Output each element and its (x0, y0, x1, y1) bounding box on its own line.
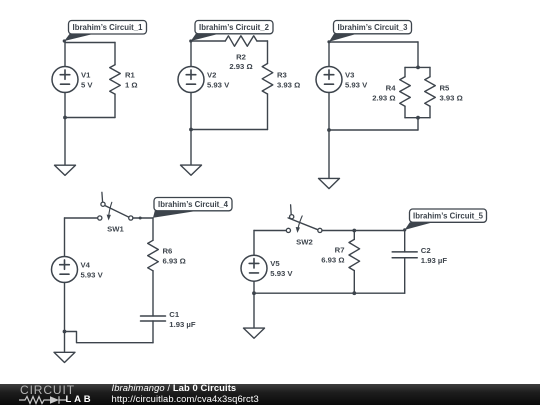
junction node V5 bottom (252, 291, 256, 295)
svg-text:5.93 V: 5.93 V (345, 81, 368, 90)
svg-text:V5: V5 (270, 259, 280, 268)
node anchor dot circuit 4 (139, 217, 142, 220)
label V1 5 V (81, 71, 93, 90)
wire C1 bottom lead (152, 321, 154, 343)
svg-text:Ibrahim’s Circuit_4: Ibrahim’s Circuit_4 (158, 200, 229, 209)
wire R5 top lead (429, 67, 431, 76)
wire bottom rail circuit 1 (65, 117, 115, 119)
wire bottom rail circuit 3 (329, 129, 418, 131)
label C1 1.93 uF (169, 310, 196, 329)
label R1 1 ohm (125, 71, 138, 90)
wire bottom rail circuit 5 (254, 292, 405, 294)
svg-text:3.93 Ω: 3.93 Ω (277, 81, 300, 90)
svg-text:V2: V2 (207, 71, 216, 80)
wire to ground circuit 3 (328, 130, 330, 178)
svg-text:R5: R5 (440, 84, 451, 93)
svg-text:1.93 µF: 1.93 µF (169, 320, 196, 329)
svg-text:5 V: 5 V (81, 81, 93, 90)
svg-text:R1: R1 (125, 71, 136, 80)
ground circuit 3 (319, 178, 340, 188)
svg-text:1 Ω: 1 Ω (125, 81, 138, 90)
junction node circuit 2 (189, 128, 193, 132)
label V5 5.93 V (270, 259, 293, 278)
wire top rail left circuit 2 (191, 40, 225, 42)
wire bottom return circuit 4 (65, 332, 154, 343)
CircuitLab logo LAB (66, 395, 94, 405)
wire R3 top lead (267, 41, 269, 64)
wire V3 bottom lead (328, 93, 330, 131)
wire V4 bottom lead (64, 283, 66, 332)
wire R4 top lead (404, 67, 406, 76)
annotation label Ibrahim's Circuit_5 (403, 209, 486, 231)
wire C2 top lead (404, 231, 406, 252)
label R2 2.93 ohm (229, 52, 252, 71)
ground circuit 5 (244, 328, 265, 338)
resistor R3 (262, 64, 273, 95)
wire SW2 to C2 (322, 230, 405, 232)
svg-text:Ibrahim’s Circuit_2: Ibrahim’s Circuit_2 (199, 23, 270, 32)
wire parallel bottom lead (417, 118, 419, 130)
svg-text:SW2: SW2 (296, 238, 313, 247)
wire parallel bottom bar (405, 117, 430, 119)
junction node R7 top (352, 229, 356, 233)
wire C2 bottom lead (404, 258, 406, 293)
resistor R6 (148, 240, 159, 270)
capacitor C1 (141, 316, 166, 321)
svg-text:R6: R6 (163, 247, 173, 256)
wire V1 top lead (64, 43, 66, 67)
junction node circuit 4 (63, 330, 67, 334)
wire R7 top lead (353, 231, 355, 240)
wire top rail circuit 3 (329, 41, 418, 43)
label V3 5.93 V (345, 71, 368, 90)
wire V2 top lead (190, 41, 192, 67)
wire top rail circuit 1 (65, 42, 115, 44)
wire V2 bottom lead (190, 93, 192, 130)
svg-text:5.93 V: 5.93 V (81, 271, 104, 280)
svg-text:6.93 Ω: 6.93 Ω (163, 257, 186, 266)
label R4 2.93 ohm (372, 84, 396, 103)
svg-text:R7: R7 (335, 246, 345, 255)
footer title and url (112, 383, 259, 405)
svg-text:Ibrahim’s Circuit_1: Ibrahim’s Circuit_1 (73, 23, 144, 32)
voltage source V4 (52, 257, 78, 283)
capacitor C2 (392, 252, 417, 258)
voltage source V3 (316, 67, 342, 93)
wire R1 top lead (114, 43, 116, 65)
svg-text:V4: V4 (81, 261, 91, 270)
svg-text:5.93 V: 5.93 V (270, 269, 293, 278)
CircuitLab logo wire with resistor and diode (17, 395, 69, 405)
label R6 6.93 ohm (163, 247, 186, 266)
wire V5 top lead (253, 231, 255, 256)
junction node parallel bottom (416, 116, 420, 120)
svg-text:C2: C2 (421, 246, 431, 255)
label R5 3.93 ohm (440, 84, 463, 103)
wire SW1 to corner (133, 217, 153, 219)
voltage source V2 (178, 67, 204, 93)
annotation label Ibrahim's Circuit_4 (153, 198, 232, 218)
wire V4 top lead (64, 218, 66, 257)
svg-text:R2: R2 (236, 52, 246, 61)
resistor R7 (349, 239, 360, 270)
svg-text:Ibrahim’s Circuit_5: Ibrahim’s Circuit_5 (413, 212, 484, 221)
footer bar (0, 384, 540, 405)
svg-text:V1: V1 (81, 71, 91, 80)
svg-text:Ibrahim’s Circuit_3: Ibrahim’s Circuit_3 (338, 23, 409, 32)
wire parallel top bar (405, 66, 430, 68)
label R3 3.93 ohm (277, 71, 300, 90)
wire R4 bottom lead (404, 106, 406, 118)
wire R6 bottom lead (152, 271, 154, 316)
label V2 5.93 V (207, 71, 230, 90)
switch SW2 (286, 205, 322, 233)
svg-text:5.93 V: 5.93 V (207, 81, 230, 90)
svg-text:V3: V3 (345, 71, 354, 80)
svg-text:R4: R4 (386, 84, 397, 93)
wire parallel top lead (417, 42, 419, 67)
label R7 6.93 ohm (321, 246, 344, 265)
wire left rail circuit 4 (65, 217, 98, 219)
svg-text:1.93 µF: 1.93 µF (421, 256, 448, 265)
wire left rail circuit 5 (254, 230, 286, 232)
wire R6 top lead (152, 218, 154, 240)
wire V5 bottom lead (253, 281, 255, 328)
annotation label Ibrahim's Circuit_1 (63, 21, 147, 43)
svg-text:C1: C1 (169, 310, 180, 319)
wire V3 top lead (328, 42, 330, 67)
annotation label Ibrahim's Circuit_3 (327, 21, 411, 44)
resistor R4 (400, 77, 411, 106)
svg-text:3.93 Ω: 3.93 Ω (440, 94, 463, 103)
resistor R5 (425, 77, 436, 106)
ground circuit 1 (55, 165, 76, 175)
CircuitLab logo CIRCUIT (20, 385, 75, 395)
wire top rail right circuit 2 (257, 40, 268, 42)
wire R5 bottom lead (429, 106, 431, 118)
switch SW1 (98, 192, 133, 220)
voltage source V1 (52, 67, 78, 93)
svg-text:6.93 Ω: 6.93 Ω (321, 256, 344, 265)
resistor R1 (110, 65, 121, 94)
annotation label Ibrahim's Circuit_2 (189, 21, 273, 43)
junction node circuit 3 (327, 128, 331, 132)
label C2 1.93 uF (421, 246, 448, 265)
junction node circuit 1 (63, 116, 67, 120)
wire R7 bottom lead (353, 271, 355, 294)
svg-text:2.93 Ω: 2.93 Ω (229, 62, 252, 71)
svg-text:R3: R3 (277, 71, 287, 80)
junction node R7 bottom (352, 291, 356, 295)
wire to ground circuit 2 (190, 130, 192, 166)
resistor R2 (225, 36, 257, 47)
svg-text:SW1: SW1 (107, 225, 124, 234)
wire R3 bottom lead (267, 94, 269, 130)
wire V1 bottom lead (64, 93, 66, 118)
wire bottom rail circuit 2 (191, 129, 268, 131)
svg-text:2.93 Ω: 2.93 Ω (372, 94, 395, 103)
voltage source V5 (241, 255, 267, 281)
ground circuit 2 (181, 165, 202, 175)
label V4 5.93 V (81, 261, 104, 280)
wire to ground circuit 4 (64, 332, 66, 353)
ground circuit 4 (54, 352, 75, 362)
wire to ground circuit 1 (64, 118, 66, 166)
junction node parallel top (416, 66, 420, 70)
wire R1 bottom lead (114, 94, 116, 117)
